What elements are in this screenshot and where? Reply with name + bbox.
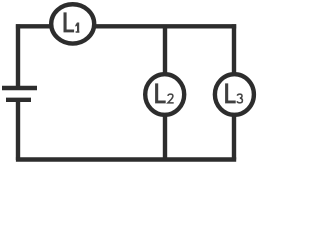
lamp L2 circle <box>145 74 184 115</box>
label L1 letter L <box>64 12 75 32</box>
label L2 letter L <box>155 83 166 103</box>
label L2 subscript 2 <box>168 94 174 103</box>
label L3 letter L <box>225 83 236 103</box>
label L1 subscript 1 <box>75 23 79 33</box>
lamp L3 circle <box>215 74 254 115</box>
battery cell B1 long plate <box>2 86 37 90</box>
label L3 subscript 3 <box>237 94 242 103</box>
battery cell B1 short plate <box>6 98 31 102</box>
wire bottom conductor <box>16 157 236 161</box>
lamp L1 circle <box>51 4 94 43</box>
wire left vertical upper <box>16 24 20 87</box>
wire top conductor <box>16 24 236 28</box>
wire right branch for L3 <box>232 24 236 159</box>
wire middle branch for L2 <box>163 26 167 159</box>
wire left vertical lower <box>16 100 20 160</box>
